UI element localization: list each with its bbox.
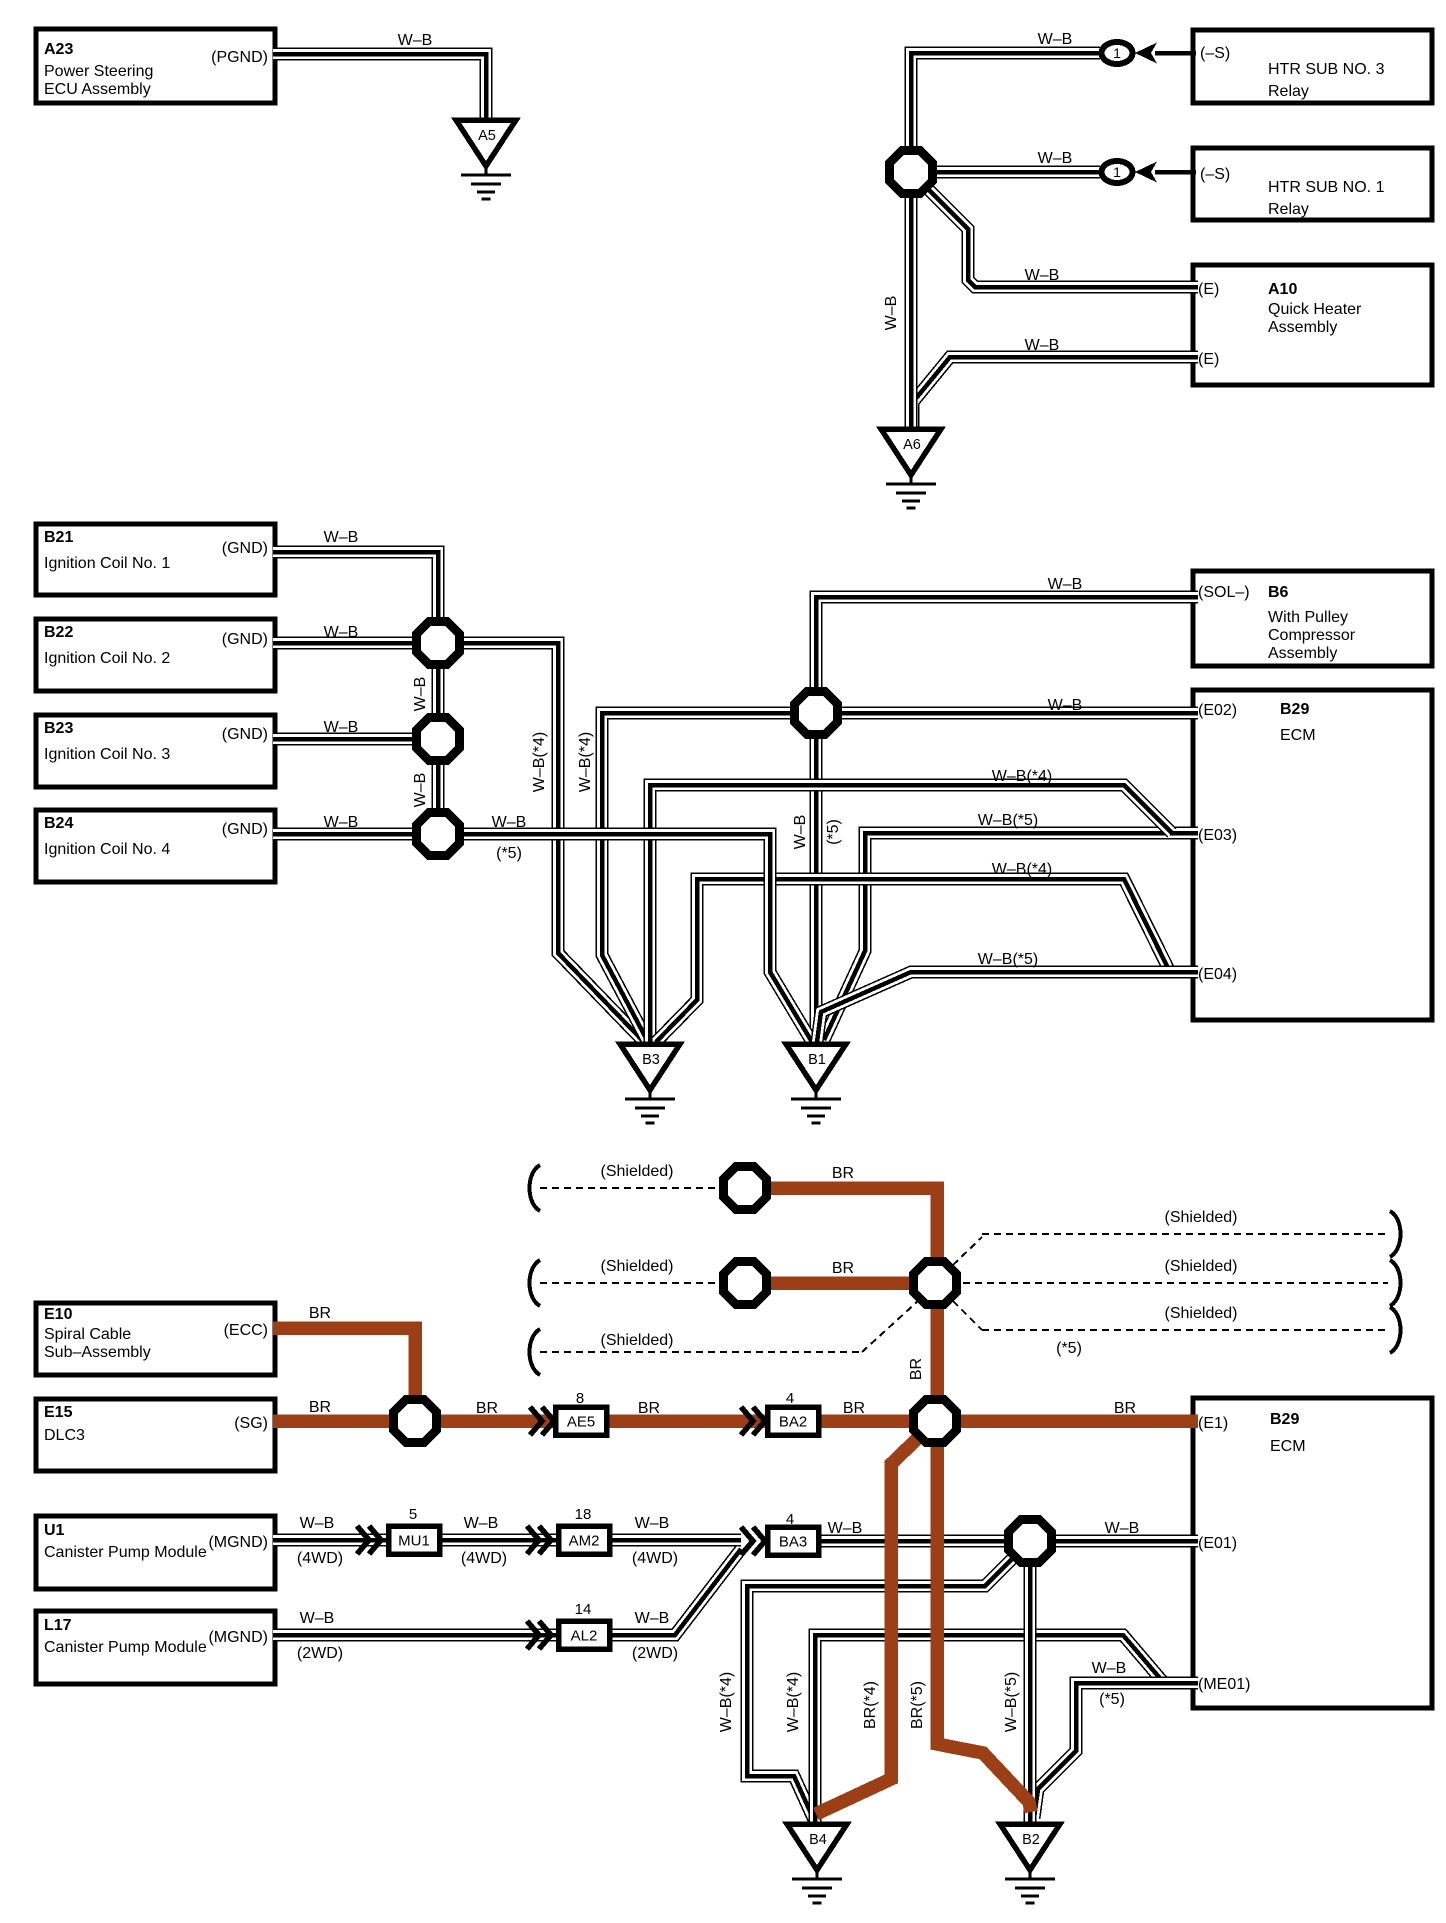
svg-text:BR: BR [476, 1400, 498, 1417]
connector box BA3 [768, 1527, 819, 1555]
svg-text:Compressor: Compressor [1268, 627, 1356, 644]
svg-text:W–B(*4): W–B(*4) [785, 1672, 802, 1732]
svg-text:(2WD): (2WD) [297, 1645, 343, 1662]
svg-text:(E01): (E01) [1198, 1535, 1237, 1552]
svg-text:Assembly: Assembly [1268, 319, 1337, 336]
svg-text:HTR SUB NO. 3: HTR SUB NO. 3 [1268, 61, 1385, 78]
wire W-B junction J1 vertical to J2 [432, 622, 445, 762]
svg-text:(4WD): (4WD) [297, 1550, 343, 1567]
wire W-B from junction to HTR SUB NO.3 connector [911, 53, 1100, 148]
svg-text:B6: B6 [1268, 584, 1289, 601]
svg-text:W–B(*4): W–B(*4) [992, 768, 1052, 785]
svg-text:(E02): (E02) [1198, 702, 1237, 719]
svg-text:(GND): (GND) [222, 540, 268, 557]
svg-text:8: 8 [576, 1390, 584, 1407]
brace shielded S1 left [530, 1165, 541, 1211]
wire W-B from B22 (GND) to junction J1 [273, 637, 416, 650]
svg-text:B1: B1 [808, 1052, 826, 1068]
wire W-B(*4) from ME01 pin to ground B4 [815, 1635, 1198, 1826]
svg-text:(SOL–): (SOL–) [1198, 584, 1250, 601]
svg-text:A5: A5 [478, 128, 496, 144]
svg-text:W–B(*4): W–B(*4) [718, 1672, 735, 1732]
svg-text:(MGND): (MGND) [208, 1534, 268, 1551]
component box U1 Canister Pump Module [36, 1516, 275, 1589]
svg-text:(ECC): (ECC) [224, 1322, 268, 1339]
svg-text:(*5): (*5) [496, 845, 522, 862]
svg-text:W–B: W–B [398, 32, 433, 49]
svg-text:W–B(*4): W–B(*4) [992, 861, 1052, 878]
svg-text:W–B: W–B [1092, 1660, 1127, 1677]
svg-text:Canister Pump Module: Canister Pump Module [44, 1544, 207, 1561]
wire W-B(*5) from E04 pin to ground B1 [817, 972, 1198, 1042]
ground A6 [881, 429, 941, 508]
svg-text:W–B: W–B [324, 719, 359, 736]
svg-text:ECU Assembly: ECU Assembly [44, 81, 151, 98]
svg-text:(PGND): (PGND) [211, 49, 268, 66]
dashed shielded line right upper [982, 1233, 1388, 1235]
svg-text:(E): (E) [1198, 351, 1219, 368]
dashed shielded diagonal right upper [953, 1237, 982, 1265]
svg-text:BR: BR [908, 1358, 925, 1380]
svg-text:Spiral Cable: Spiral Cable [44, 1326, 131, 1343]
wire W-B(*4) from ground B3 to E04 merge [656, 879, 1170, 1042]
junction octagon S2 (shielded lower) [724, 1262, 767, 1305]
connector line HTR SUB NO.3 relay [1155, 51, 1196, 56]
component box B23 Ignition Coil No. 3 [36, 715, 275, 787]
connector chevron before AM2 [527, 1526, 551, 1554]
wire W-B(*5) from ME01 pin to ground B2 [1034, 1683, 1198, 1818]
svg-text:BA3: BA3 [779, 1534, 807, 1551]
svg-text:W–B(*4): W–B(*4) [577, 732, 594, 792]
connector chevron before MU1 [357, 1526, 381, 1554]
wire BR from shielded junction S2 to junction S3 [768, 1276, 912, 1290]
svg-text:W–B: W–B [1048, 697, 1083, 714]
svg-text:B24: B24 [44, 815, 73, 832]
svg-text:(E03): (E03) [1198, 827, 1237, 844]
svg-text:(E04): (E04) [1198, 966, 1237, 983]
wire BR(*4) from junction J7 to ground B4 [816, 1437, 919, 1814]
svg-text:Quick Heater: Quick Heater [1268, 301, 1362, 318]
svg-text:E15: E15 [44, 1404, 73, 1421]
svg-text:W–B: W–B [464, 1515, 499, 1532]
wire W-B junction J5 to E01 pin [1052, 1535, 1198, 1548]
connector chevron before AL2 [527, 1621, 551, 1649]
svg-text:B2: B2 [1022, 1832, 1040, 1848]
wire W-B from B21 (GND) to junction J1 [273, 552, 438, 622]
svg-text:W–B: W–B [300, 1610, 335, 1627]
wire W-B junction J4 down to ground B1 [810, 738, 823, 1046]
wire W-B from BA3 to junction J5 [818, 1535, 1010, 1548]
svg-text:B29: B29 [1270, 1411, 1299, 1428]
svg-text:A6: A6 [903, 437, 921, 453]
svg-text:AE5: AE5 [567, 1414, 595, 1431]
svg-text:(ME01): (ME01) [1198, 1676, 1250, 1693]
svg-text:L17: L17 [44, 1617, 72, 1634]
wire W-B from L17 (MGND) through AL2 to BA3 [273, 1549, 741, 1635]
svg-text:BR(*4): BR(*4) [862, 1681, 879, 1729]
svg-text:Ignition Coil No. 3: Ignition Coil No. 3 [44, 746, 170, 763]
svg-text:W–B: W–B [635, 1610, 670, 1627]
svg-text:(*5): (*5) [825, 819, 842, 845]
arrow to HTR SUB NO.3 relay [1135, 43, 1157, 64]
svg-text:W–B: W–B [1048, 576, 1083, 593]
svg-text:(4WD): (4WD) [461, 1550, 507, 1567]
connector chevron before BA2 [741, 1407, 765, 1435]
svg-text:B21: B21 [44, 529, 73, 546]
connector chevron before AE5 [530, 1407, 554, 1435]
svg-text:(4WD): (4WD) [632, 1550, 678, 1567]
svg-text:Assembly: Assembly [1268, 645, 1337, 662]
connector chevron before BA3 [741, 1527, 765, 1555]
svg-text:W–B: W–B [324, 529, 359, 546]
wire W-B junction J2 vertical to J3 [432, 762, 445, 856]
wire W-B from junction down to ground A6 [905, 194, 918, 432]
wire W-B(*4) from ground B3 to E03 merge [650, 785, 1172, 1046]
connector box AL2 [559, 1621, 610, 1649]
connector line HTR SUB NO.1 relay [1155, 170, 1196, 175]
dashed shielded line right lower [982, 1329, 1388, 1331]
svg-text:(–S): (–S) [1200, 166, 1230, 183]
svg-text:(–S): (–S) [1200, 45, 1230, 62]
svg-text:DLC3: DLC3 [44, 1427, 85, 1444]
svg-text:BR: BR [832, 1165, 854, 1182]
page connector 1 to HTR SUB NO.3 [1102, 42, 1133, 64]
wire W-B from B23 (GND) to junction J2 [273, 733, 416, 746]
component box B29 ECM (bottom) [1193, 1398, 1432, 1708]
svg-text:BR: BR [843, 1400, 865, 1417]
component box E15 DLC3 [36, 1399, 275, 1471]
page connector 1 to HTR SUB NO.1 [1102, 161, 1133, 183]
wire W-B from B24 junction to ground B1 [462, 834, 812, 1042]
component box HTR SUB NO. 1 Relay [1193, 148, 1432, 220]
svg-text:14: 14 [575, 1601, 592, 1618]
svg-text:Ignition Coil No. 4: Ignition Coil No. 4 [44, 841, 170, 858]
svg-text:W–B(*4): W–B(*4) [531, 732, 548, 792]
svg-text:BR: BR [309, 1399, 331, 1416]
svg-text:B29: B29 [1280, 701, 1309, 718]
component box B21 Ignition Coil No. 1 [36, 524, 275, 595]
component box B29 ECM (middle) [1193, 690, 1432, 1020]
dashed shielded line S2 [540, 1282, 722, 1284]
ground A5 [456, 120, 516, 199]
svg-text:E10: E10 [44, 1306, 73, 1323]
svg-text:W–B: W–B [324, 814, 359, 831]
svg-text:(GND): (GND) [222, 631, 268, 648]
junction octagon A (top) [890, 151, 933, 194]
ground B1 [786, 1044, 846, 1123]
svg-text:(Shielded): (Shielded) [1165, 1258, 1238, 1275]
component box A10 Quick Heater Assembly [1193, 265, 1432, 385]
svg-text:A10: A10 [1268, 281, 1297, 298]
component box B6 With Pulley Compressor Assembly [1193, 571, 1432, 666]
svg-text:ECM: ECM [1280, 727, 1316, 744]
junction octagon J5 (E01 row) [1009, 1520, 1052, 1563]
svg-text:(GND): (GND) [222, 821, 268, 838]
svg-text:(Shielded): (Shielded) [1165, 1305, 1238, 1322]
svg-text:(SG): (SG) [234, 1415, 268, 1432]
svg-text:W–B: W–B [1038, 150, 1073, 167]
svg-text:(Shielded): (Shielded) [601, 1258, 674, 1275]
wire W-B junction J4 left down to ground B3 [602, 713, 792, 1040]
brace shielded S2 left [530, 1260, 541, 1306]
wire BR from E10 (ECC) to junction J6 [273, 1328, 415, 1400]
brace shielded right upper [1390, 1211, 1401, 1257]
svg-text:B22: B22 [44, 624, 73, 641]
svg-text:(E1): (E1) [1198, 1415, 1228, 1432]
ground B3 [620, 1044, 680, 1123]
svg-text:W–B: W–B [1025, 337, 1060, 354]
junction octagon J3 (ignition coils lower) [417, 813, 460, 856]
dashed shielded diagonal right lower [953, 1301, 982, 1330]
brace shielded right middle [1390, 1260, 1401, 1306]
svg-text:W–B: W–B [324, 624, 359, 641]
svg-text:MU1: MU1 [398, 1533, 430, 1550]
connector box BA2 [768, 1407, 819, 1435]
wire W-B from U1 (MGND) through MU1 AM2 to BA3 [273, 1534, 741, 1547]
svg-text:ECM: ECM [1270, 1438, 1306, 1455]
svg-text:(*5): (*5) [1099, 1691, 1125, 1708]
svg-text:4: 4 [786, 1390, 794, 1407]
dashed shielded line right middle [963, 1282, 1388, 1284]
svg-text:1: 1 [1113, 164, 1121, 180]
wire W-B from B24 (GND) to junction J3 [273, 828, 416, 841]
svg-text:(Shielded): (Shielded) [601, 1332, 674, 1349]
svg-text:(Shielded): (Shielded) [1165, 1209, 1238, 1226]
junction octagon J7 (E1 row) [914, 1400, 957, 1443]
svg-text:BR: BR [1114, 1400, 1136, 1417]
brace shielded S3 left [530, 1329, 541, 1375]
wire W-B(*5) junction J5 down to ground B2 [1024, 1563, 1037, 1826]
svg-text:W–B: W–B [635, 1515, 670, 1532]
component box B24 Ignition Coil No. 4 [36, 810, 275, 882]
svg-text:Relay: Relay [1268, 201, 1309, 218]
wire W-B junction J4 up to B6 (SOL-) [816, 597, 1198, 692]
svg-text:W–B: W–B [828, 1520, 863, 1537]
svg-text:(2WD): (2WD) [632, 1645, 678, 1662]
arrow to HTR SUB NO.1 relay [1135, 162, 1157, 183]
ground B4 [787, 1824, 847, 1903]
svg-text:W–B: W–B [412, 773, 429, 808]
svg-text:Power Steering: Power Steering [44, 63, 153, 80]
connector box AE5 [556, 1407, 607, 1435]
wire W-B from A23 (PGND) to ground A5 [273, 54, 486, 124]
connector box AM2 [559, 1526, 610, 1554]
svg-text:B3: B3 [642, 1052, 660, 1068]
svg-text:W–B: W–B [792, 815, 809, 850]
wire W-B junction J1 right down to ground B3 [462, 643, 644, 1042]
wire W-B from A10 (E) lower pin to ground A6 [913, 357, 1198, 432]
svg-text:Ignition Coil No. 1: Ignition Coil No. 1 [44, 555, 170, 572]
svg-text:A23: A23 [44, 41, 73, 58]
svg-text:W–B(*5): W–B(*5) [1003, 1672, 1020, 1732]
ground B2 [1000, 1824, 1060, 1903]
component box HTR SUB NO. 3 Relay [1193, 30, 1432, 103]
svg-text:BR(*5): BR(*5) [909, 1681, 926, 1729]
svg-text:Canister Pump Module: Canister Pump Module [44, 1639, 207, 1656]
junction octagon J6 (DLC3 row) [394, 1400, 437, 1443]
svg-text:(E): (E) [1198, 281, 1219, 298]
component box A23 Power Steering ECU Assembly [36, 29, 275, 103]
wire W-B(*4) junction J5 to ground B4 [747, 1557, 1014, 1820]
svg-text:BR: BR [309, 1305, 331, 1322]
svg-text:(*5): (*5) [1056, 1340, 1082, 1357]
svg-text:Ignition Coil No. 2: Ignition Coil No. 2 [44, 650, 170, 667]
svg-text:18: 18 [575, 1506, 592, 1523]
connector box MU1 [389, 1526, 440, 1554]
component box B22 Ignition Coil No. 2 [36, 619, 275, 691]
svg-text:U1: U1 [44, 1522, 65, 1539]
component box E10 Spiral Cable Sub-Assembly [36, 1303, 275, 1375]
svg-text:(MGND): (MGND) [208, 1629, 268, 1646]
svg-text:W–B: W–B [492, 814, 527, 831]
svg-text:HTR SUB NO. 1: HTR SUB NO. 1 [1268, 179, 1385, 196]
svg-text:W–B: W–B [412, 677, 429, 712]
junction octagon J2 (ignition coils middle) [417, 718, 460, 761]
svg-text:W–B(*5): W–B(*5) [978, 951, 1038, 968]
svg-text:Sub–Assembly: Sub–Assembly [44, 1344, 151, 1361]
svg-text:W–B: W–B [1038, 31, 1073, 48]
svg-text:W–B: W–B [300, 1515, 335, 1532]
dashed shielded diagonal S3 to junction [862, 1301, 918, 1352]
svg-text:(GND): (GND) [222, 726, 268, 743]
svg-text:W–B(*5): W–B(*5) [978, 812, 1038, 829]
wire W-B corner to E03 and down to ground B1 [824, 833, 1198, 1040]
svg-text:(Shielded): (Shielded) [601, 1163, 674, 1180]
component box L17 Canister Pump Module [36, 1611, 275, 1684]
svg-text:AL2: AL2 [571, 1628, 598, 1645]
junction octagon S3 (shielded main) [914, 1262, 957, 1305]
svg-text:Relay: Relay [1268, 83, 1309, 100]
junction octagon J4 (ECM E02 row) [795, 692, 838, 735]
svg-text:5: 5 [409, 1506, 417, 1523]
svg-text:BR: BR [638, 1400, 660, 1417]
wire BR from E15 (SG) through AE5 BA2 junction J7 to E1 pin [273, 1414, 1198, 1428]
svg-text:BA2: BA2 [779, 1414, 807, 1431]
brace shielded right lower [1390, 1307, 1401, 1353]
junction octagon S1 (shielded upper) [724, 1167, 767, 1210]
svg-text:B4: B4 [809, 1832, 827, 1848]
wire BR from shielded junction S1 down to ground B2 (BR *5) [768, 1188, 1031, 1812]
dashed shielded line S3 [540, 1351, 862, 1353]
svg-text:W–B: W–B [883, 296, 900, 331]
wire W-B from junction to HTR SUB NO.1 connector [935, 166, 1100, 179]
svg-text:B23: B23 [44, 720, 73, 737]
svg-text:4: 4 [786, 1511, 794, 1528]
svg-text:W–B: W–B [1025, 267, 1060, 284]
svg-text:BR: BR [832, 1260, 854, 1277]
wire W-B junction J4 right to E02 pin [840, 707, 1198, 720]
svg-text:1: 1 [1113, 45, 1121, 61]
junction octagon J1 (ignition coils upper) [417, 622, 460, 665]
wire W-B from junction to A10 (E) upper pin [925, 186, 1198, 287]
svg-text:With Pulley: With Pulley [1268, 609, 1348, 626]
svg-text:AM2: AM2 [569, 1533, 600, 1550]
dashed shielded line S1 [540, 1187, 722, 1189]
svg-text:W–B: W–B [1105, 1520, 1140, 1537]
